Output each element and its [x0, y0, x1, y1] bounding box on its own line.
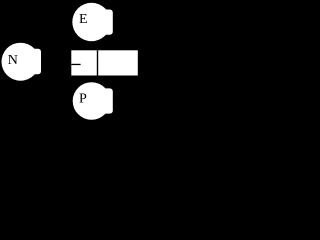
svg-text:E: E [79, 12, 88, 27]
svg-text:N: N [8, 53, 18, 68]
node P [73, 82, 113, 120]
divider line [97, 50, 98, 75]
wire tick [71, 64, 80, 65]
background [0, 0, 140, 122]
node E [72, 3, 113, 41]
svg-text:P: P [79, 91, 87, 106]
box [71, 50, 138, 75]
node N [2, 43, 42, 81]
